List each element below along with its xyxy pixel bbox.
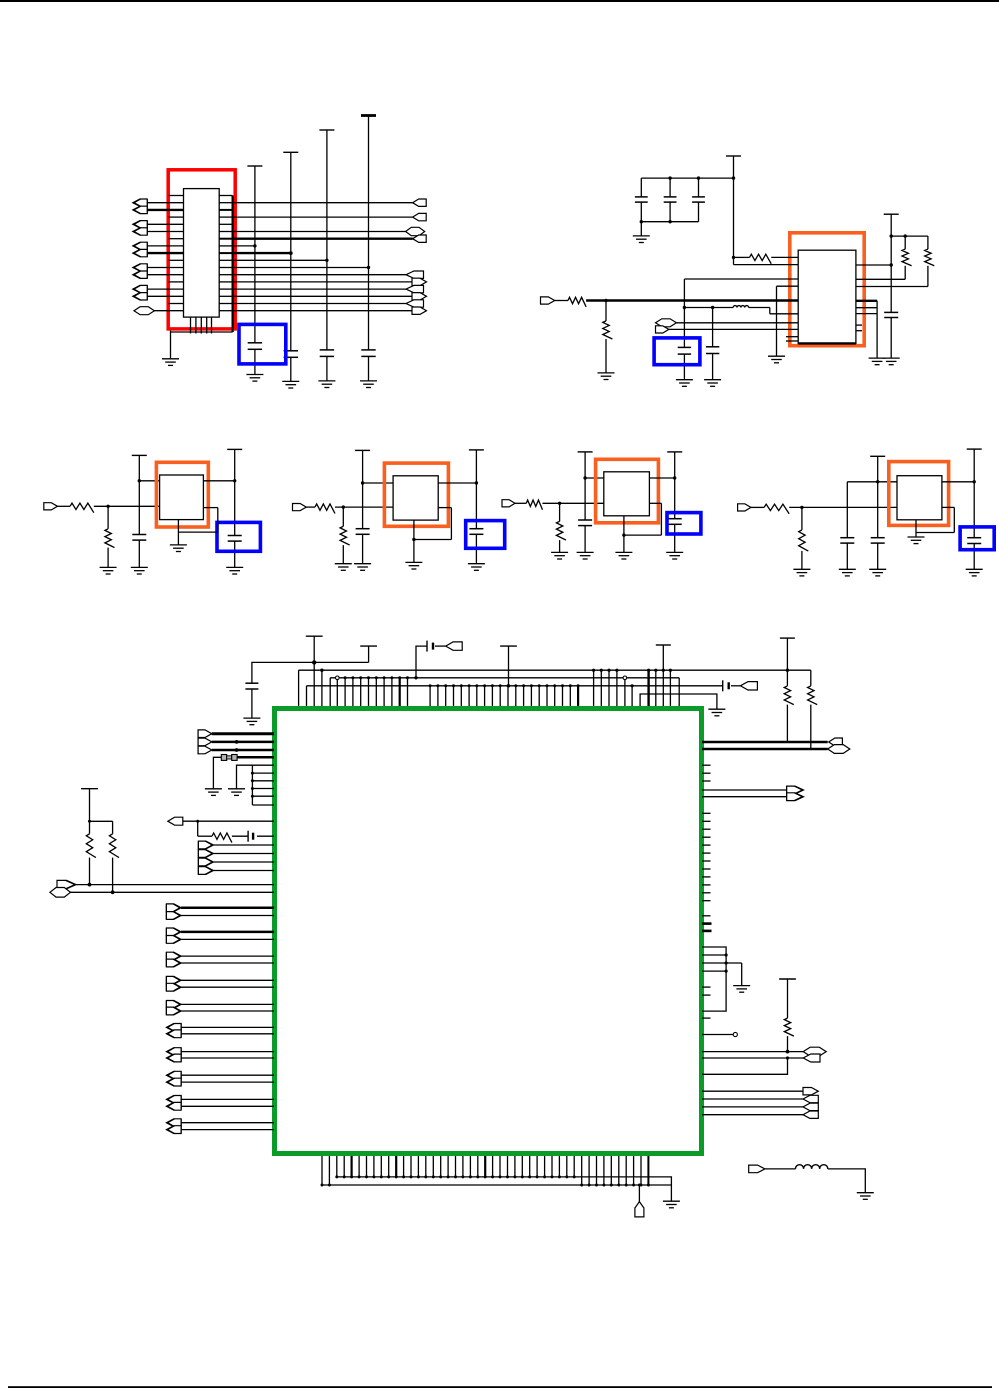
- junction J16 row1: [235, 740, 239, 744]
- junction bus1 2: [350, 1175, 353, 1178]
- resistor R7: [105, 529, 115, 548]
- wire U1 right pin row3: [219, 216, 232, 218]
- wire R5 top: [927, 236, 929, 249]
- junction P5/R3: [732, 256, 735, 259]
- ground cap cluster: [633, 236, 650, 243]
- wire U7 bottom pin 10: [410, 1156, 412, 1177]
- junction busD g2-6: [475, 684, 478, 687]
- wire J24 row a: [181, 979, 274, 981]
- wire U7 top pin g2-19: [577, 686, 579, 706]
- wire U7 top pin s649: [647, 670, 649, 706]
- wire J13 to R12: [751, 506, 764, 508]
- wire cap cluster top rail: [641, 177, 733, 179]
- port J23 dual chevron: [166, 952, 181, 967]
- ground C16: [666, 552, 683, 559]
- ground C11: [131, 567, 148, 574]
- wire U7 right stub 1: [702, 772, 711, 774]
- wire C17 up corner: [846, 482, 848, 538]
- power rail bar P9: [355, 449, 370, 451]
- wire tap down: [197, 821, 199, 836]
- junction bus1 13: [432, 1175, 435, 1178]
- ground U5: [615, 552, 632, 559]
- power rail bar P17: [656, 644, 671, 646]
- wire P19 down: [89, 789, 91, 834]
- junction busB s601: [600, 669, 603, 672]
- junction busD g2-19: [577, 684, 580, 687]
- capacitor C16: [668, 519, 682, 525]
- wire osc branch up: [416, 646, 427, 678]
- wire J22 row b: [181, 938, 274, 940]
- junction bus1 26: [528, 1175, 531, 1178]
- junction R19/row1051: [786, 1050, 790, 1054]
- wire U1 row7 to C1: [233, 245, 255, 247]
- wire J-left row10: [147, 267, 183, 269]
- wire C21 to J14: [435, 645, 446, 647]
- wire U7 right stub y853: [702, 852, 711, 854]
- wire R18 down: [112, 858, 114, 893]
- wire J30 row b: [181, 1129, 274, 1131]
- wire U7 right stub y837: [702, 836, 711, 838]
- wire J11 to R8: [306, 506, 315, 508]
- junction P18/busB: [786, 669, 789, 672]
- junction busB s594: [592, 669, 595, 672]
- wire P5 to R3: [734, 256, 750, 258]
- wire U4 out down: [450, 508, 452, 540]
- junction bus2 35: [595, 1184, 598, 1187]
- capacitor C12: [228, 536, 242, 542]
- power rail bar P8: [227, 448, 242, 450]
- junction mini bus 2: [251, 779, 254, 782]
- wire J21 row b: [181, 915, 274, 917]
- wire U7 bottom pin 3: [358, 1156, 360, 1177]
- wire R15 down: [810, 705, 812, 749]
- wire U7 top pin g2-0: [429, 686, 431, 706]
- wire U5 out right: [649, 502, 661, 504]
- junction top out/P10: [475, 481, 478, 484]
- wire row307 segment: [684, 307, 733, 309]
- junction rail/C6: [668, 176, 671, 179]
- wire U7 bottom pin 12: [425, 1156, 427, 1177]
- wire U7 top pin s632: [631, 686, 633, 706]
- wire U7 bottom pin 28: [544, 1156, 546, 1177]
- wire U1 right pin row5: [219, 231, 232, 233]
- junction busD g2-18: [569, 684, 572, 687]
- port J32 hexagon: [828, 745, 850, 754]
- junction bus2 b: [328, 1184, 331, 1187]
- wire J16 row 2 (thick): [212, 749, 274, 752]
- resistor R1: [568, 297, 586, 307]
- wire U1 right pin row9: [219, 259, 232, 261]
- wire U1 right pin row11: [219, 274, 232, 276]
- junction bus1 18: [469, 1175, 472, 1178]
- wire U7 top pin s624: [624, 678, 626, 706]
- junction bus1 4: [365, 1175, 368, 1178]
- junction bus1 11: [417, 1175, 420, 1178]
- wire bead left corner: [213, 757, 221, 789]
- power rail bar P21: [306, 635, 323, 637]
- wire U1 right pin row15: [219, 303, 232, 305]
- port JA5 arrow: [406, 271, 424, 278]
- port J19 arrow: [57, 880, 76, 888]
- ground C17: [839, 569, 856, 576]
- wire U7 top pin g2-10: [507, 686, 509, 706]
- wire R1 to U2 (thick): [586, 299, 798, 302]
- wire U7 right stub y861: [702, 860, 711, 862]
- ground C3: [318, 381, 335, 388]
- junction busD g2-17: [561, 684, 564, 687]
- junction row265/P6: [890, 263, 893, 266]
- junction bus1 19: [476, 1175, 479, 1178]
- wire U7 bottom pin 16: [455, 1156, 457, 1177]
- wire U7 bottom pin 29: [551, 1156, 553, 1177]
- wire cluster to ground: [640, 222, 642, 236]
- wire U7 top pin s617: [616, 670, 618, 706]
- wire row971 out: [702, 970, 726, 972]
- wire U7 right stub y885: [702, 884, 711, 886]
- wire U1 right pin row1: [219, 202, 232, 204]
- wire J28 row a: [181, 1074, 274, 1076]
- port J7 input: [541, 297, 555, 304]
- capacitor C2: [284, 351, 298, 358]
- junction U4 gnd: [412, 538, 415, 541]
- wire U1 row5 out: [233, 231, 406, 233]
- junction busD g2-10: [507, 684, 510, 687]
- wire C1 to ground: [254, 349, 256, 374]
- wire P14 down: [973, 449, 975, 538]
- power rail bar P7: [132, 454, 147, 456]
- wire bottom bus2: [322, 1184, 671, 1186]
- power rail bar P11: [578, 451, 593, 453]
- junction busC g1-1: [344, 676, 347, 679]
- wire branch right: [90, 820, 113, 822]
- port J28 dual chevron: [166, 1071, 181, 1086]
- wire J16 row 0 (thick): [212, 732, 274, 735]
- capacitor C22: [723, 680, 729, 691]
- wire busC: [330, 677, 679, 679]
- wire U7 right stub c: [702, 986, 711, 988]
- wire U7 bottom pin 11: [417, 1156, 419, 1177]
- wire C8 top corner: [683, 279, 685, 347]
- wire P17 down: [662, 645, 664, 670]
- junction busD g2-3: [452, 684, 455, 687]
- junction bus2 33: [580, 1184, 583, 1187]
- ground U4: [405, 562, 422, 569]
- junction bus2 41: [640, 1184, 643, 1187]
- junction input U6: [800, 506, 803, 509]
- wire U7 right stub y829: [702, 828, 711, 830]
- ferrite bead FB1: [221, 755, 237, 761]
- junction bottom rail 1: [640, 220, 643, 223]
- wire U7 bottom pin 40: [633, 1156, 635, 1185]
- junction row971: [725, 970, 728, 973]
- wire P12 down: [674, 452, 676, 519]
- junction busC g1-7: [390, 676, 393, 679]
- wire R11 down: [559, 540, 561, 552]
- wire P8 down: [234, 449, 236, 535]
- wire mini bus row 0: [252, 764, 274, 766]
- wire P20 down: [787, 979, 789, 1018]
- wire U1 left pin stub row3: [169, 216, 184, 218]
- junction bus1 10: [410, 1175, 413, 1178]
- wire C6 top: [669, 178, 671, 197]
- IC U5 body: [604, 472, 650, 516]
- wire C5 bottom: [640, 202, 642, 222]
- wire U1 right pin row12: [219, 281, 232, 283]
- wire U1 bottom pin 0: [190, 317, 192, 333]
- wire U7 bottom pin 8: [395, 1156, 397, 1177]
- wire C23 to U7: [257, 835, 274, 837]
- ground C14: [468, 564, 485, 571]
- junction row9/C3: [325, 259, 328, 262]
- wire U7 bottom pin 38: [618, 1156, 620, 1185]
- wire C8 to ground: [683, 354, 685, 380]
- wire U1 left pin stub row12: [169, 281, 184, 283]
- wire R18 top: [112, 821, 114, 834]
- wire gnd stub corner: [776, 286, 778, 356]
- wire J38 to L2: [765, 1168, 796, 1170]
- wire R15 top: [810, 670, 812, 686]
- junction P9/top row: [361, 481, 364, 484]
- wire U5 top out: [649, 477, 674, 479]
- wire U7 bottom pin 35: [596, 1156, 598, 1185]
- wire J16 row 1 (thick): [212, 741, 274, 744]
- wire U7 right stub thick b: [702, 930, 712, 933]
- wire U7 top pin s601: [600, 670, 602, 706]
- wire U7 bottom pin 33: [581, 1156, 583, 1185]
- port JA2 arrow: [413, 213, 427, 220]
- wire row892 to U7: [71, 891, 275, 893]
- port J33 dual chevron: [787, 786, 804, 801]
- junction bus1 1: [343, 1175, 346, 1178]
- resistor R3: [750, 254, 772, 264]
- wire U1 row9 to C3: [233, 259, 327, 261]
- wire C9 top: [712, 308, 714, 347]
- port J36 arrow 0: [803, 1088, 818, 1095]
- junction J16 row2: [235, 748, 239, 752]
- junction bus1 16: [454, 1175, 457, 1178]
- wire U7 bottom pin 7: [388, 1156, 390, 1177]
- port J36 arrow 1: [803, 1095, 818, 1102]
- capacitor C18: [871, 538, 885, 543]
- junction bus1 31: [565, 1175, 568, 1178]
- junction busD g2-0: [429, 684, 432, 687]
- resistor R4: [902, 249, 912, 266]
- wire J18 row 0: [213, 844, 274, 846]
- junction P7/top row: [138, 479, 141, 482]
- ground row286: [768, 356, 785, 363]
- wire U2 row300 (thick): [856, 300, 877, 302]
- wire U7 top pin g1-3: [360, 678, 362, 706]
- power rail bar P1: [247, 165, 262, 167]
- wire U7 bottom pin 1: [343, 1156, 345, 1177]
- junction row8/C2: [289, 251, 293, 255]
- wire C13 to ground: [362, 534, 364, 563]
- port J18 chevron 1: [198, 850, 213, 858]
- wire J29 row a: [181, 1098, 274, 1100]
- wire U7 out row1114: [702, 1114, 803, 1116]
- wire pin 679 down: [678, 678, 680, 706]
- wire R7 top: [107, 506, 109, 529]
- wire P6 rail right: [891, 235, 928, 237]
- wire P18 down: [786, 638, 788, 686]
- wire U7 right stub d: [702, 994, 711, 996]
- capacitor C4: [361, 350, 375, 357]
- junction mini bus 3: [251, 787, 254, 790]
- port J38 input: [749, 1165, 765, 1173]
- wire J26 row a: [181, 1026, 274, 1028]
- wire R9 top: [342, 507, 344, 526]
- page top border line: [0, 0, 999, 2]
- wire C17 to ground: [846, 543, 848, 569]
- junction bus2 a: [321, 1184, 324, 1187]
- wire J6 to U1: [154, 310, 183, 312]
- wire row694 to ground: [640, 694, 717, 709]
- wire row1074 out: [702, 1058, 788, 1074]
- resistor R19: [784, 1018, 794, 1036]
- wire P13 down: [877, 456, 879, 537]
- wire J30 row a: [181, 1122, 274, 1124]
- junction bus1 17: [461, 1175, 464, 1178]
- port J9 arrow: [656, 326, 669, 333]
- wire U6 top out: [942, 481, 974, 483]
- ground bottom: [663, 1201, 680, 1208]
- wire U7 bottom pin 21: [492, 1156, 494, 1177]
- junction busD s632: [631, 684, 634, 687]
- port J17 arrow: [168, 817, 183, 825]
- wire U1 bottom pin 2: [200, 317, 202, 333]
- wire U7 top pin g2-18: [569, 686, 571, 706]
- ground right mid: [733, 986, 750, 993]
- power rail bar P18: [780, 637, 795, 639]
- power rail bar P16: [500, 645, 517, 647]
- power rail bar P10: [469, 449, 484, 451]
- wire C4 to ground: [368, 356, 370, 381]
- port J18 chevron 2: [198, 858, 213, 866]
- junction J17 tap: [196, 820, 199, 823]
- wire row1034 out: [702, 1034, 733, 1036]
- ground U3: [170, 545, 187, 552]
- wire gnd branch: [741, 963, 743, 986]
- wire R8 to U4: [335, 506, 393, 508]
- wire C12 to ground: [234, 541, 236, 567]
- wire U7 top pin g1-2: [352, 678, 354, 706]
- wire J27 row a: [181, 1051, 274, 1053]
- wire U7 top pin g2-12: [523, 686, 525, 706]
- wire C10 to ground: [890, 318, 892, 359]
- port J11 input: [293, 504, 307, 511]
- inductor L2: [795, 1165, 827, 1169]
- junction U5 gnd: [622, 533, 625, 536]
- wire busB: [299, 669, 788, 671]
- wire U1 row10 to C4: [233, 267, 369, 269]
- port J16 arrow 2: [198, 746, 212, 754]
- wire U1 right pin row4: [219, 223, 232, 225]
- resistor R2: [603, 321, 613, 339]
- junction busC g1-4: [367, 676, 370, 679]
- wire R3 to U2: [771, 256, 798, 258]
- port J16 arrow 1: [198, 738, 212, 746]
- wire bottom pin long b: [328, 1156, 330, 1185]
- wire U7 bottom pin 27: [536, 1156, 538, 1177]
- wire U1 right pin row2: [219, 209, 232, 211]
- resistor R13: [799, 530, 809, 551]
- wire U7 bottom pin 41: [640, 1156, 642, 1185]
- wire U6 gnd pin: [915, 520, 917, 537]
- wire U7 bottom pin 36: [603, 1156, 605, 1185]
- wire U7 top pin g2-16: [554, 686, 556, 706]
- annotation box (blue) around C1: [239, 324, 286, 364]
- wire jog to U2: [770, 313, 798, 315]
- wire down connector: [638, 1185, 640, 1202]
- wire U7 bottom pin 31: [566, 1156, 568, 1177]
- wire U4 top out: [438, 482, 476, 484]
- capacitor C8: [678, 347, 691, 354]
- wire R19 down: [787, 1036, 789, 1052]
- ground R9: [335, 564, 352, 571]
- wire U1 right pin row14: [219, 295, 232, 297]
- wire R13 top: [801, 507, 803, 530]
- wire U1 bottom pin 1: [195, 317, 197, 333]
- wire U1 left pin stub row6: [169, 238, 184, 240]
- junction bus1 7: [387, 1175, 390, 1178]
- port J6 (bidirectional hexagon): [134, 307, 154, 315]
- junction busB s656: [654, 669, 657, 672]
- junction busC g1-6: [383, 676, 386, 679]
- wire top row to U3: [139, 480, 159, 482]
- wire C20 to ground: [251, 689, 253, 718]
- wire rail to R15: [787, 669, 810, 671]
- junction bus1 27: [536, 1175, 539, 1178]
- port J25 dual chevron: [166, 1001, 181, 1015]
- capacitor C1: [248, 343, 262, 350]
- junction busD g2-12: [522, 684, 525, 687]
- port JA9 arrow: [406, 300, 424, 307]
- wire row884 to U7: [76, 884, 274, 886]
- wire U7 top pin g2-4: [460, 686, 462, 706]
- wire U7 top pin g1-7: [391, 678, 393, 706]
- junction busC g1-3: [359, 676, 362, 679]
- wire U2 left stub a: [786, 336, 798, 338]
- wire R5 down corner: [927, 266, 929, 287]
- wire U1 right pin row16: [219, 310, 232, 312]
- wire top row to U4: [363, 482, 394, 484]
- wire pin 306 down: [306, 686, 308, 706]
- port J18 chevron 3: [198, 867, 213, 875]
- junction busD g2-14: [538, 684, 541, 687]
- ground C8: [676, 380, 693, 387]
- wire U1 row15 out: [233, 303, 406, 305]
- junction busD g2-2: [444, 684, 447, 687]
- port J16 triple arrow bar: [197, 730, 199, 754]
- junction R17/row: [88, 883, 92, 887]
- wire U7 top pin g2-8: [491, 686, 493, 706]
- port J20 hexagon: [50, 888, 71, 898]
- wire U7 bottom pin 34: [588, 1156, 590, 1185]
- wire U7 top pin g2-17: [562, 686, 564, 706]
- power rail bar P3: [319, 129, 334, 131]
- ground under U1: [162, 359, 179, 366]
- resistor R8: [315, 504, 335, 514]
- wire U7 bottom pin 4: [366, 1156, 368, 1177]
- wire C14 to ground: [475, 534, 477, 563]
- wire C5 top: [640, 178, 642, 197]
- wire R10 to U5: [543, 502, 604, 504]
- wire U3 out left: [178, 531, 217, 533]
- annotation box (red) around U1: [168, 170, 235, 329]
- junction bus1 5: [372, 1175, 375, 1178]
- port J5 (left dual chevron): [133, 285, 147, 300]
- wire C7 bottom: [698, 202, 700, 222]
